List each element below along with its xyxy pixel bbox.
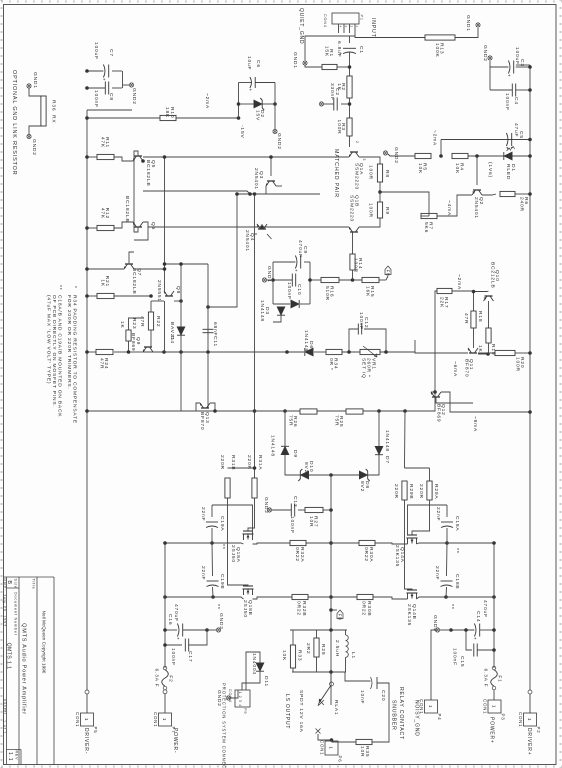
label SNUBBER xyxy=(391,700,397,731)
node R11 rail xyxy=(85,155,89,159)
wire R35 down xyxy=(332,741,357,743)
node C5 at rail xyxy=(528,138,532,142)
resistor R1 xyxy=(322,46,337,70)
label Q3 type xyxy=(253,168,259,190)
svg-text:NOISY_GND: NOISY_GND xyxy=(414,700,420,737)
capacitor C18A xyxy=(441,522,453,528)
diode D9 xyxy=(281,446,289,454)
ground GND2 pin at R36 xyxy=(27,134,31,138)
label R8 value xyxy=(368,165,374,180)
label D8 xyxy=(364,481,370,489)
connector P3 POWER+ xyxy=(483,699,506,720)
wire vas gate tie xyxy=(414,340,416,352)
wire gnd2 stub right xyxy=(440,629,451,631)
node Q13 emitter tap xyxy=(213,409,217,413)
note C18 star xyxy=(56,285,62,291)
svg-text:POWER+: POWER+ xyxy=(489,717,495,744)
svg-text:1: 1 xyxy=(162,718,167,721)
label D3 xyxy=(264,307,270,315)
wire +feed xyxy=(493,543,495,668)
svg-text:68nF: 68nF xyxy=(212,322,218,336)
mosfet Q14A xyxy=(407,535,418,544)
label C13 xyxy=(292,496,298,507)
label R20 value xyxy=(515,357,521,372)
svg-text:2SK135: 2SK135 xyxy=(394,545,400,567)
transistor Q5 xyxy=(133,156,143,161)
wire R12 bottom xyxy=(87,227,97,229)
node R20 rail xyxy=(528,351,532,355)
svg-text:100nF: 100nF xyxy=(170,648,176,666)
wire bus597 to -feed xyxy=(165,596,213,598)
resistor R29A xyxy=(427,481,432,500)
svg-text:100uF: 100uF xyxy=(514,47,520,65)
wire output line xyxy=(330,475,332,705)
wire quiet gnd run xyxy=(305,36,322,60)
resistor R2 xyxy=(336,76,352,98)
node R1 junction xyxy=(348,65,352,69)
label D7 xyxy=(384,456,390,464)
wire Q14A drain up xyxy=(417,543,448,544)
label R29B value xyxy=(393,484,399,499)
label GND2 at R36 xyxy=(31,139,37,156)
wire block bottom tie xyxy=(272,262,274,304)
ground GND2 at D2 xyxy=(273,129,277,133)
transistor Q4 xyxy=(257,224,267,229)
transistor Q8 xyxy=(164,291,174,296)
svg-text:2SJ50: 2SJ50 xyxy=(230,545,236,563)
svg-text:MATCHED PAIR: MATCHED PAIR xyxy=(333,149,339,198)
node D2 top xyxy=(273,102,277,106)
label GND2 protection xyxy=(216,690,222,707)
label R32A xyxy=(299,547,305,562)
resistor R22 xyxy=(148,312,153,330)
resistor R10 xyxy=(160,115,176,120)
wire C7 branch xyxy=(112,70,122,72)
svg-text:GND2: GND2 xyxy=(131,88,137,105)
wire R31A to Q18A gate xyxy=(248,498,255,531)
node tail xyxy=(378,190,382,194)
wire mirror out line xyxy=(164,157,166,291)
label Q11 xyxy=(468,359,474,370)
note R34 text2 xyxy=(66,295,72,390)
svg-text:C17: C17 xyxy=(187,651,193,662)
wire Q2 emitter to R7 xyxy=(437,195,472,216)
svg-text:+: + xyxy=(294,269,299,272)
svg-text:~2mA: ~2mA xyxy=(204,93,210,109)
svg-text:SET IQ: SET IQ xyxy=(361,358,367,379)
wire block top tie xyxy=(309,262,311,304)
wire C9 branch top xyxy=(304,261,310,263)
svg-text:1: 1 xyxy=(355,26,359,28)
wire C18 line mid xyxy=(446,543,449,576)
label Q5 type xyxy=(145,160,151,187)
mosfet Q18B xyxy=(243,586,254,595)
ground GND2 power top xyxy=(435,628,439,632)
capacitor C2 xyxy=(334,98,337,111)
wire C9 branch bottom xyxy=(273,261,295,263)
label C6 value xyxy=(246,56,252,70)
mosfet Q18A xyxy=(243,531,254,540)
label D7 type xyxy=(384,430,390,452)
svg-text:2: 2 xyxy=(349,26,353,28)
wire bus543 to -feed xyxy=(165,542,212,544)
ground GND2 bottom left xyxy=(129,83,133,87)
label Q18A xyxy=(235,547,241,563)
label RELAY CONTACT xyxy=(398,687,404,740)
diode D2 xyxy=(254,98,264,110)
label Q18B type xyxy=(242,600,248,618)
label GND2 zobel xyxy=(263,497,269,514)
label R9 xyxy=(384,207,390,215)
node fb node xyxy=(351,278,355,282)
label D6 xyxy=(308,341,314,349)
svg-text:47K: 47K xyxy=(100,137,106,148)
wire out to R32A xyxy=(306,542,331,544)
svg-text:C11: C11 xyxy=(212,336,218,347)
title block xyxy=(3,577,54,765)
label Q7 type xyxy=(131,268,137,295)
wire line y354 xyxy=(207,264,209,400)
label Q18A type xyxy=(230,545,236,563)
resistor R34 xyxy=(326,349,342,370)
svg-text:C20: C20 xyxy=(380,690,386,701)
wire C19 line left xyxy=(211,505,213,517)
node y325 end xyxy=(235,192,239,196)
wire R36 left lead xyxy=(29,88,41,96)
node C15 feed xyxy=(492,648,496,652)
wire Q13 collector xyxy=(87,403,200,411)
wire R32A to Q18A src xyxy=(253,543,291,544)
svg-text:22nF: 22nF xyxy=(200,507,206,521)
label R19 xyxy=(490,344,496,355)
wire C19A src tap xyxy=(212,505,253,535)
node y354 b xyxy=(206,305,210,309)
svg-text:510R: 510R xyxy=(324,286,330,301)
svg-text:0R22: 0R22 xyxy=(296,601,302,616)
resistor R31B xyxy=(225,478,230,498)
label L1 value xyxy=(334,640,340,657)
node C19A tee xyxy=(210,541,214,545)
node Q7 out xyxy=(163,267,167,271)
capacitor C3 xyxy=(507,61,514,78)
svg-text:100nF: 100nF xyxy=(286,282,292,300)
capacitor C6 xyxy=(248,77,255,92)
wire line y381 xyxy=(180,264,182,411)
wire C3 top lead xyxy=(516,66,530,68)
label R31B value xyxy=(219,455,225,470)
svg-text:100R: 100R xyxy=(368,203,374,218)
label R29A xyxy=(433,484,439,499)
label L1 xyxy=(350,652,356,659)
wire P6 box lead xyxy=(331,740,333,741)
wire R21 up xyxy=(114,295,151,297)
wire D7 tie xyxy=(378,411,380,446)
diode D8 xyxy=(359,469,369,481)
label Q1B type xyxy=(349,195,355,222)
wire Q3 collector run xyxy=(237,186,266,194)
node Q12 emitter join xyxy=(433,390,437,394)
wire C5 branch xyxy=(441,139,530,141)
label R28 value xyxy=(305,643,311,654)
wire C14 bottom xyxy=(451,629,474,631)
label C7 xyxy=(108,49,114,57)
svg-text:PROTECTION SYSTEM CONNECTOR: PROTECTION SYSTEM CONNECTOR xyxy=(222,683,227,768)
node C16 feed xyxy=(163,628,167,632)
wire R33 right lead xyxy=(292,668,294,672)
node vas 354 xyxy=(206,350,210,354)
wire bus543 to +feed xyxy=(447,542,494,544)
svg-text:+: + xyxy=(176,637,181,640)
svg-text:GND1: GND1 xyxy=(292,52,298,69)
capacitor C17 xyxy=(185,639,188,652)
relay fixed contact X xyxy=(316,729,321,734)
svg-text:GND2: GND2 xyxy=(276,133,282,150)
label R9 value xyxy=(368,203,374,218)
wire D2 top xyxy=(262,103,275,105)
svg-text:10uF: 10uF xyxy=(246,56,252,70)
wire Q8 emitter xyxy=(151,300,164,302)
label D11 xyxy=(263,676,269,687)
wire snubber right xyxy=(372,683,389,742)
svg-text:GND1: GND1 xyxy=(266,266,272,283)
label R35 xyxy=(364,746,370,757)
wire C15 branch xyxy=(477,649,494,651)
label Q12 type xyxy=(436,404,442,422)
label R33 xyxy=(297,650,303,661)
ground GND1 top left xyxy=(476,23,480,27)
wire R28 right lead xyxy=(316,657,318,672)
wire D11 right xyxy=(242,671,260,690)
svg-text:**: ** xyxy=(448,604,454,610)
svg-text:L1: L1 xyxy=(350,652,356,659)
label R33 value xyxy=(281,650,287,661)
node C12 bottom xyxy=(347,350,351,354)
svg-text:CON1: CON1 xyxy=(153,712,158,727)
label R35 value xyxy=(359,746,365,757)
svg-text:2: 2 xyxy=(355,141,359,144)
wire R1 up lead xyxy=(337,66,350,68)
wire tie to relay xyxy=(330,672,332,682)
label ~4mA xyxy=(446,200,452,216)
resistor R3 xyxy=(336,118,352,136)
label Q9 type xyxy=(130,333,136,351)
wire C1 to R2 xyxy=(349,52,351,76)
svg-text:DRIVER-: DRIVER- xyxy=(83,728,89,754)
wire y354 to Q13 xyxy=(207,400,209,408)
node C18A tee xyxy=(445,541,449,545)
diode D3 xyxy=(291,300,299,308)
wire R11 bottom xyxy=(87,156,97,158)
wire C8 bottom xyxy=(87,87,105,89)
label C2 xyxy=(334,88,340,96)
label C18B value xyxy=(434,566,440,580)
wire C16 bottom lead xyxy=(165,629,177,631)
label Q5 xyxy=(150,160,156,168)
wire fb line top xyxy=(379,279,386,281)
label R30A value xyxy=(363,547,369,562)
svg-text:CON1: CON1 xyxy=(483,699,488,714)
ground GND2 top left xyxy=(488,56,492,60)
ground GND1 pin at R36 xyxy=(27,84,31,88)
svg-text:6.3A F: 6.3A F xyxy=(483,669,489,688)
wire Q1B collector xyxy=(148,226,349,228)
node +feed x597 xyxy=(492,595,496,599)
wire pin to P2 box xyxy=(529,694,531,713)
net flag FB input xyxy=(385,266,391,277)
label C5 xyxy=(518,131,524,139)
label D1 value xyxy=(487,162,493,178)
svg-text:R8: R8 xyxy=(384,170,390,178)
label R20 xyxy=(519,357,525,368)
svg-text:F1: F1 xyxy=(497,675,503,682)
label GND2 under R5 xyxy=(393,147,399,164)
svg-text:2SK135: 2SK135 xyxy=(406,604,412,626)
wire R14 right lead xyxy=(352,270,354,280)
svg-text:1N4148: 1N4148 xyxy=(384,430,390,452)
node R24 rail xyxy=(85,350,89,354)
label R29B xyxy=(408,484,414,499)
svg-text:BF869: BF869 xyxy=(436,404,442,422)
label R29A value xyxy=(418,484,424,499)
svg-text:0R22: 0R22 xyxy=(363,547,369,562)
wire C16 top xyxy=(183,629,207,631)
transistor Q1A xyxy=(349,152,359,157)
svg-text:47R: 47R xyxy=(99,358,105,369)
svg-text:C13: C13 xyxy=(292,496,298,507)
label Q1A type xyxy=(354,163,360,190)
svg-text:10K: 10K xyxy=(454,163,460,174)
wire C7C8 tie xyxy=(122,71,124,88)
node Lnet right xyxy=(329,670,333,674)
node out x610 xyxy=(329,608,333,612)
ground GND2 zobel xyxy=(267,508,271,512)
label NOISY_GND xyxy=(414,700,420,737)
wire vas string lower xyxy=(143,351,304,353)
wire Q8 to R22 xyxy=(150,301,152,312)
label Q8 type xyxy=(156,280,162,302)
wire C19A to tee xyxy=(211,528,213,543)
resistor R21 xyxy=(97,276,114,299)
node vas 275 xyxy=(285,350,289,354)
svg-text:GND2: GND2 xyxy=(432,615,438,632)
svg-text:220R: 220R xyxy=(418,484,424,499)
svg-text:15K: 15K xyxy=(324,46,330,57)
label GND2 power bottom xyxy=(218,613,224,630)
resistor R30A xyxy=(359,540,375,545)
svg-text:GND1: GND1 xyxy=(32,72,38,89)
ground GND1 fb block xyxy=(262,278,266,282)
capacitor C1 xyxy=(338,48,356,55)
wire Q8 collector xyxy=(174,300,181,302)
node out x597 xyxy=(329,595,333,599)
label C11 xyxy=(212,336,218,347)
svg-text:R30B: R30B xyxy=(366,601,372,616)
svg-text:Sheet: Sheet xyxy=(3,702,7,715)
wire Q11 up xyxy=(478,352,495,354)
svg-text:2N5401: 2N5401 xyxy=(244,230,250,252)
wire C19B to bus xyxy=(212,587,215,597)
wire R22 to Q9 xyxy=(150,330,152,347)
connector P5 DRIVER- xyxy=(75,712,98,733)
wire fb output stub xyxy=(331,609,337,611)
net flag FB output xyxy=(337,610,343,621)
wire R15 to node xyxy=(339,279,362,281)
wire input up to R13 xyxy=(355,36,425,38)
node Q12 rail xyxy=(528,410,532,414)
resistor R32A xyxy=(290,540,306,545)
label GND2 power top xyxy=(432,615,438,632)
wire x194 upper xyxy=(266,193,320,195)
node C17 feed xyxy=(163,643,167,647)
fuse F1 xyxy=(483,666,503,690)
svg-text:C14: C14 xyxy=(475,611,481,622)
label C15 xyxy=(459,656,465,667)
svg-text:1: 1 xyxy=(527,718,532,721)
svg-text:R23: R23 xyxy=(131,318,137,329)
svg-text:R18: R18 xyxy=(477,311,483,322)
wire C13 down xyxy=(272,509,291,511)
svg-text:R34 PADDING RESISTOR TO COMPEN: R34 PADDING RESISTOR TO COMPENSATE xyxy=(72,295,78,424)
svg-text:P2: P2 xyxy=(536,727,541,734)
wire vas string upper xyxy=(415,352,468,353)
wire bus543 source N xyxy=(375,543,408,544)
wire Q7 base xyxy=(129,252,134,264)
node R21 Q8 xyxy=(149,294,153,298)
resistor R15 xyxy=(362,277,379,297)
wire R19 right xyxy=(478,343,489,354)
node Q3 base xyxy=(269,155,273,159)
wire bus597 to +feed xyxy=(446,596,494,598)
ground GND2 protection xyxy=(226,696,230,700)
svg-text:3: 3 xyxy=(362,159,366,162)
wire R25 to R26 xyxy=(317,410,346,412)
label stars C18B xyxy=(448,604,454,610)
svg-text:100nF: 100nF xyxy=(504,93,510,111)
wire VR1 to R34 xyxy=(342,351,360,353)
wire C18A src tap xyxy=(408,505,448,535)
svg-text:0R22: 0R22 xyxy=(294,547,300,562)
label DRIVER+ xyxy=(526,728,532,755)
resistor R35 xyxy=(356,739,372,744)
svg-text:4: 4 xyxy=(338,26,342,28)
wire Lnet tie left xyxy=(290,629,347,631)
node y397 tee xyxy=(163,262,167,266)
connector P1 input box xyxy=(323,13,364,28)
svg-text:FB: FB xyxy=(337,614,342,621)
svg-text:2N5401: 2N5401 xyxy=(253,168,259,190)
label C6 xyxy=(255,60,261,68)
label INPUT xyxy=(370,18,376,38)
label Q1A xyxy=(358,163,364,175)
node P6 junction xyxy=(330,738,334,742)
svg-text:~2mA: ~2mA xyxy=(456,274,462,290)
node C7 at rail xyxy=(85,69,89,73)
svg-text:P1: P1 xyxy=(360,15,364,21)
wire C17 branch xyxy=(165,644,182,646)
svg-text:**: ** xyxy=(219,544,225,550)
resistor R31A xyxy=(252,478,257,498)
label Q8 xyxy=(175,286,181,294)
wire D11 left xyxy=(246,652,260,690)
wire R29A stub xyxy=(429,468,431,481)
svg-text:BC182LB: BC182LB xyxy=(131,268,137,295)
svg-text:10K: 10K xyxy=(281,650,287,661)
svg-text:C7: C7 xyxy=(108,49,114,57)
wire R32B to Q18B src xyxy=(253,597,293,599)
label GND2 at D2 xyxy=(276,133,282,150)
svg-text:GND2: GND2 xyxy=(31,139,37,156)
node R12 rail xyxy=(85,226,89,230)
